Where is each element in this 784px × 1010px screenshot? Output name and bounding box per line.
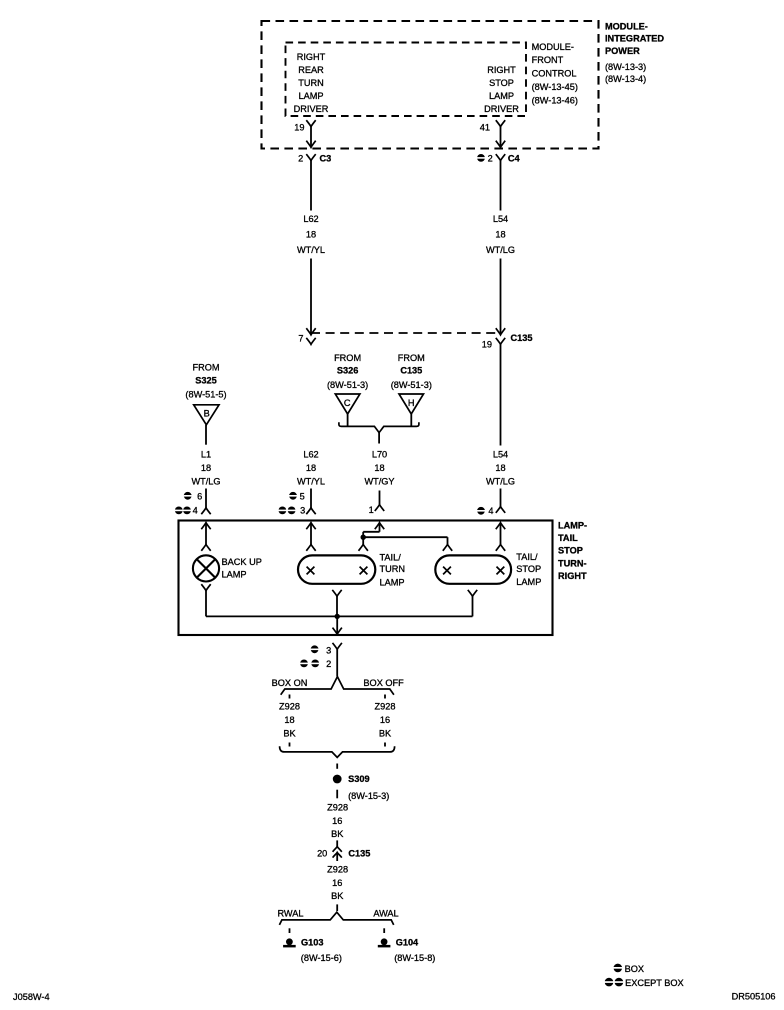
- wire: triangle B stem: [205, 425, 207, 445]
- svg-text:RWAL: RWAL: [277, 909, 303, 919]
- lamp connector fork (L54): [496, 507, 505, 513]
- svg-text:REAR: REAR: [298, 65, 324, 75]
- wire: L70 elbow to junction: [363, 531, 379, 533]
- svg-text:(8W-13-4): (8W-13-4): [605, 74, 646, 84]
- svg-text:CONTROL: CONTROL: [532, 69, 577, 79]
- box-only symbol at C4: [477, 154, 485, 162]
- wire: triangle H stem: [410, 414, 412, 426]
- svg-text:LAMP: LAMP: [489, 91, 514, 101]
- svg-text:6: 6: [197, 491, 202, 501]
- lamp connector pin 1 fork: [375, 505, 384, 511]
- svg-text:WT/YL: WT/YL: [297, 245, 325, 255]
- split brace BOX ON / BOX OFF: [281, 677, 394, 695]
- ground G104 symbol: [378, 938, 391, 947]
- pin 41 connector fork: [496, 120, 505, 126]
- legend box-only symbol: [613, 964, 622, 973]
- wire stub above ground split: [336, 904, 338, 911]
- wire stub left branch (bottom): [289, 743, 291, 747]
- svg-text:19: 19: [294, 123, 304, 133]
- wire: tail/stop lamp to ground bus: [472, 596, 474, 616]
- svg-text:18: 18: [495, 463, 505, 473]
- arrow into C135 (right): [496, 328, 505, 335]
- svg-text:MODULE-: MODULE-: [532, 42, 574, 52]
- svg-text:MODULE-: MODULE-: [605, 21, 648, 31]
- svg-text:18: 18: [374, 463, 384, 473]
- box-only symbol pin 5: [289, 492, 297, 500]
- svg-text:(8W-15-6): (8W-15-6): [301, 953, 342, 963]
- wire into C135 connector: [336, 840, 338, 846]
- svg-text:WT/LG: WT/LG: [191, 477, 220, 487]
- backup lamp bottom fork: [201, 584, 210, 590]
- tail/turn lamp left terminal fork: [306, 544, 315, 550]
- svg-text:B: B: [204, 409, 210, 419]
- wire label Z928 16 BK (above C135): [327, 803, 348, 840]
- connector C3 fork: [306, 154, 315, 160]
- label: FROM S326 (8W-51-3): [327, 353, 368, 390]
- lamp connector fork (L1): [201, 508, 210, 514]
- svg-text:L54: L54: [493, 450, 508, 460]
- tail/stop lamp right terminal fork: [496, 544, 505, 550]
- bottom connector fork: [333, 643, 342, 649]
- svg-text:(8W-15-3): (8W-15-3): [348, 791, 389, 801]
- svg-text:C135: C135: [511, 333, 533, 343]
- connector C4 fork: [496, 154, 505, 160]
- svg-text:STOP: STOP: [516, 564, 541, 574]
- wire label L70 18 WT/GY: [364, 450, 394, 487]
- wire L70 lower segment: [379, 491, 381, 505]
- svg-text:TAIL/: TAIL/: [380, 553, 402, 563]
- svg-text:(8W-51-3): (8W-51-3): [327, 380, 368, 390]
- svg-text:18: 18: [306, 230, 316, 240]
- svg-text:16: 16: [380, 715, 390, 725]
- svg-text:FROM: FROM: [398, 353, 425, 363]
- svg-text:WT/LG: WT/LG: [486, 477, 515, 487]
- svg-text:LAMP: LAMP: [380, 577, 405, 587]
- C135 pin 7 fork: [306, 338, 315, 344]
- split brace RWAL / AWAL: [279, 912, 393, 925]
- svg-text:H: H: [408, 398, 415, 408]
- svg-text:C3: C3: [320, 153, 332, 163]
- tail/stop filament x right: [497, 567, 505, 575]
- wire: pin19 to module edge: [310, 127, 312, 148]
- label: FROM C135 (8W-51-3): [391, 353, 432, 390]
- wire L1 lower segment: [205, 489, 207, 508]
- svg-text:TURN: TURN: [380, 564, 406, 574]
- svg-text:4: 4: [193, 506, 198, 516]
- splice S309: [333, 775, 342, 784]
- svg-text:G103: G103: [301, 937, 323, 947]
- connector C135 dashed boundary: [311, 332, 501, 334]
- svg-text:WT/GY: WT/GY: [364, 477, 394, 487]
- svg-text:DRIVER: DRIVER: [294, 104, 329, 114]
- tail/turn lamp stadium body: [298, 555, 375, 583]
- svg-text:(8W-51-3): (8W-51-3): [391, 380, 432, 390]
- svg-text:Z928: Z928: [327, 803, 348, 813]
- off-page connector triangle C: [335, 394, 360, 414]
- wire L62 to C135: [310, 259, 312, 335]
- svg-text:FRONT: FRONT: [532, 55, 564, 65]
- wire: junction to tail/turn right terminal: [362, 537, 364, 544]
- svg-text:S326: S326: [337, 366, 358, 376]
- svg-text:L62: L62: [303, 214, 318, 224]
- svg-text:BOX OFF: BOX OFF: [363, 678, 404, 688]
- ground G103 symbol: [283, 938, 296, 947]
- wire stub left branch (top): [289, 695, 291, 699]
- wire label L62 18 WT/YL (upper): [297, 214, 325, 255]
- svg-text:STOP: STOP: [558, 546, 583, 556]
- wire label Z928 16 BK (below C135): [327, 865, 348, 902]
- svg-text:C: C: [344, 398, 351, 408]
- svg-text:L1: L1: [201, 450, 211, 460]
- svg-text:BK: BK: [379, 729, 392, 739]
- svg-text:LAMP: LAMP: [516, 577, 541, 587]
- svg-text:FROM: FROM: [334, 353, 361, 363]
- svg-text:C135: C135: [400, 366, 422, 376]
- svg-text:BOX ON: BOX ON: [272, 678, 308, 688]
- lamp connector fork (L62): [306, 508, 315, 514]
- junction splice (tail feed): [361, 535, 366, 540]
- svg-text:BK: BK: [331, 891, 344, 901]
- svg-text:16: 16: [332, 816, 342, 826]
- svg-text:RIGHT: RIGHT: [297, 52, 326, 62]
- svg-text:INTEGRATED: INTEGRATED: [605, 33, 664, 43]
- module U1: MODULE-INTEGRATED POWER outer dashed box: [262, 21, 599, 149]
- tail/turn filament x right: [360, 567, 368, 575]
- label: FROM S325 (8W-51-5): [185, 363, 226, 400]
- tail/stop lamp bottom fork: [468, 590, 477, 596]
- svg-text:L62: L62: [303, 450, 318, 460]
- svg-text:C4: C4: [508, 153, 521, 163]
- wire: junction to tail/stop left terminal: [363, 536, 447, 538]
- svg-text:LAMP-: LAMP-: [558, 521, 587, 531]
- wire: pin41 to module edge: [500, 127, 502, 148]
- svg-text:Z928: Z928: [375, 702, 396, 712]
- svg-text:2: 2: [326, 659, 331, 669]
- arrow out of module (right): [496, 141, 505, 148]
- svg-text:3: 3: [326, 645, 331, 655]
- svg-text:L54: L54: [493, 214, 508, 224]
- off-page connector triangle H: [399, 394, 424, 414]
- label: MODULE-INTEGRATED POWER (8W-13-3) (8W-13-4): [605, 21, 664, 84]
- C135 inline connector arrow: [333, 852, 342, 857]
- pin arrow into lamp box (L1): [201, 523, 210, 530]
- wire label L1 18 WT/LG: [191, 450, 220, 487]
- wire stub right branch (top): [384, 695, 386, 699]
- wire L62 lower segment: [310, 489, 312, 508]
- svg-text:18: 18: [495, 230, 505, 240]
- pin arrow into lamp box (L54): [496, 523, 505, 530]
- svg-text:41: 41: [480, 123, 490, 133]
- legend except-box symbols: [605, 978, 614, 987]
- svg-text:L70: L70: [372, 450, 387, 460]
- arrow out of module (left): [306, 141, 315, 148]
- svg-text:(8W-13-45): (8W-13-45): [532, 82, 578, 92]
- svg-text:BK: BK: [283, 729, 296, 739]
- pin arrow into lamp box (L70): [375, 523, 384, 530]
- box-only symbol pin 4 (right): [477, 507, 485, 515]
- svg-text:3: 3: [300, 506, 305, 516]
- label: LAMP-TAIL STOP TURN-RIGHT: [558, 521, 587, 581]
- wire label L54 18 WT/LG (upper): [486, 214, 515, 255]
- svg-text:S325: S325: [195, 376, 216, 386]
- except-box symbols pin 3: [278, 507, 286, 515]
- svg-text:1: 1: [369, 505, 374, 515]
- arrow into C135 (left): [306, 328, 315, 335]
- svg-text:FROM: FROM: [192, 363, 219, 373]
- svg-text:BK: BK: [331, 829, 344, 839]
- svg-text:18: 18: [201, 463, 211, 473]
- svg-text:G104: G104: [396, 937, 419, 947]
- svg-text:4: 4: [488, 506, 493, 516]
- svg-text:RIGHT: RIGHT: [558, 571, 587, 581]
- wire L62 upper segment: [310, 161, 312, 211]
- svg-text:AWAL: AWAL: [373, 909, 398, 919]
- tail/turn lamp right terminal fork: [359, 544, 368, 550]
- wire L70 from brace: [378, 433, 380, 444]
- pin 19 connector fork: [306, 120, 315, 126]
- svg-text:TAIL/: TAIL/: [516, 552, 538, 562]
- wire label Z928 18 BK (left branch): [279, 702, 300, 739]
- svg-text:TAIL: TAIL: [558, 533, 578, 543]
- svg-text:RIGHT: RIGHT: [487, 65, 516, 75]
- svg-text:2: 2: [298, 153, 303, 163]
- C135 inline connector fork: [333, 847, 342, 852]
- svg-text:DRIVER: DRIVER: [484, 104, 519, 114]
- svg-text:EXCEPT BOX: EXCEPT BOX: [625, 978, 684, 988]
- svg-text:18: 18: [284, 715, 294, 725]
- arrow out of lamp box: [333, 628, 342, 635]
- tail/stop lamp left terminal fork: [443, 544, 452, 550]
- svg-text:Z928: Z928: [279, 702, 300, 712]
- svg-text:WT/LG: WT/LG: [486, 245, 515, 255]
- svg-text:BOX: BOX: [625, 964, 644, 974]
- C135 pin 19 fork: [496, 338, 505, 344]
- svg-text:(8W-15-8): (8W-15-8): [394, 953, 435, 963]
- backup lamp terminal fork: [201, 544, 210, 550]
- box-only symbol pin 3 (bottom): [311, 645, 319, 653]
- wire L54 to C135: [500, 259, 502, 335]
- label: TAIL/STOP LAMP: [516, 552, 541, 587]
- svg-text:20: 20: [317, 849, 327, 859]
- off-page connector triangle B: [194, 405, 219, 425]
- wire: bus to box edge: [336, 616, 338, 634]
- wire: tail/turn lamp to ground bus: [336, 596, 338, 616]
- merge brace to S309: [280, 746, 395, 757]
- svg-text:C135: C135: [348, 849, 370, 859]
- wire L54 lower segment: [500, 489, 502, 507]
- except-box symbols pin 4: [175, 507, 183, 515]
- wire stub below S309: [336, 790, 338, 799]
- svg-text:TURN: TURN: [298, 78, 324, 88]
- svg-text:(8W-13-3): (8W-13-3): [605, 62, 646, 72]
- svg-text:16: 16: [332, 878, 342, 888]
- tail/stop lamp stadium body: [435, 555, 511, 583]
- svg-text:(8W-13-46): (8W-13-46): [532, 96, 578, 106]
- backup lamp B1 symbol: [193, 555, 219, 581]
- svg-text:S309: S309: [348, 774, 369, 784]
- svg-text:LAMP: LAMP: [298, 91, 323, 101]
- svg-text:STOP: STOP: [489, 78, 514, 88]
- wire L54 upper segment: [500, 161, 502, 211]
- svg-text:18: 18: [306, 463, 316, 473]
- merge brace C+H to L70: [339, 422, 419, 432]
- wire L54 middle segment: [500, 344, 502, 445]
- wire stub to G104: [383, 928, 385, 933]
- pin arrow into lamp box (L62): [306, 523, 315, 530]
- wire stub above S309: [336, 764, 338, 769]
- svg-text:5: 5: [300, 491, 305, 501]
- tail/turn filament x left: [307, 567, 315, 575]
- svg-text:DR505106: DR505106: [732, 991, 776, 1001]
- svg-text:BACK UP: BACK UP: [222, 557, 262, 567]
- except-box symbols pin 2 (bottom): [300, 660, 308, 668]
- svg-text:WT/YL: WT/YL: [297, 477, 325, 487]
- wire stub right branch (bottom): [384, 743, 386, 747]
- tail/turn lamp bottom fork: [332, 590, 341, 596]
- junction splice (ground bus): [335, 614, 340, 619]
- label: TAIL/TURN LAMP: [380, 553, 406, 588]
- lamp assembly box LAMP-TAIL STOP TURN-RIGHT: [179, 521, 553, 636]
- svg-text:2: 2: [488, 153, 493, 163]
- wire: ground bus: [206, 615, 473, 617]
- svg-text:POWER: POWER: [605, 46, 640, 56]
- svg-text:LAMP: LAMP: [222, 569, 247, 579]
- wire: backup lamp to ground bus: [205, 591, 207, 617]
- wire label L62 18 WT/YL (lower): [297, 450, 325, 487]
- label: RIGHT STOP LAMP DRIVER: [484, 65, 519, 114]
- tail/stop filament x left: [443, 567, 451, 575]
- wire label Z928 16 BK (right branch): [375, 702, 396, 739]
- svg-text:7: 7: [298, 334, 303, 344]
- svg-text:19: 19: [482, 340, 492, 350]
- label: MODULE-FRONT CONTROL (8W-13-45) (8W-13-46): [532, 42, 578, 106]
- svg-text:Z928: Z928: [327, 865, 348, 875]
- wire stub to G103: [289, 928, 291, 933]
- svg-text:J058W-4: J058W-4: [13, 992, 50, 1002]
- label: BACK UP LAMP: [222, 557, 262, 579]
- wire: connector to split: [336, 649, 338, 676]
- label: RIGHT REAR TURN LAMP DRIVER: [294, 52, 329, 114]
- svg-text:TURN-: TURN-: [558, 558, 587, 568]
- wire: triangle C stem: [347, 414, 349, 426]
- box-only symbol pin 6: [184, 492, 192, 500]
- wire label L54 18 WT/LG (lower): [486, 450, 515, 487]
- module U2: MODULE-FRONT CONTROL inner dashed box: [286, 43, 527, 117]
- svg-text:(8W-51-5): (8W-51-5): [185, 390, 226, 400]
